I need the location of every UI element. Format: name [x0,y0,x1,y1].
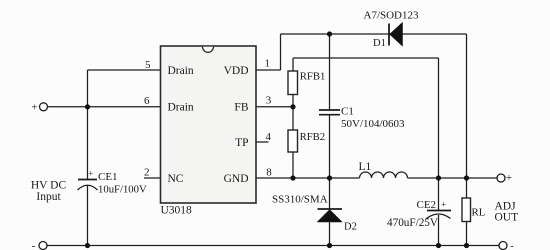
junction RL top node [464,175,469,180]
svg-text:+: + [441,201,446,211]
junction RL bottom node [464,243,469,248]
capacitor C1 [319,110,340,115]
wire junction to pin 6 [88,106,161,108]
svg-text:A7/SOD123: A7/SOD123 [364,10,420,22]
wire RFB1 to RFB2 [292,95,294,131]
junction switch node [327,175,332,180]
svg-text:+: + [88,169,93,179]
svg-text:Input: Input [36,191,61,203]
svg-text:4: 4 [266,131,272,143]
svg-text:RFB1: RFB1 [300,70,326,82]
svg-text:8: 8 [266,167,272,179]
wire RFB1 top riser [292,58,294,71]
wire RFB2 bottom [292,152,294,178]
svg-text:D2: D2 [344,222,357,233]
wire pin 5 [88,69,161,71]
svg-text:CE1: CE1 [98,171,118,183]
inductor L1 [360,172,408,178]
svg-text:+: + [506,172,512,184]
svg-text:-: - [32,240,36,250]
resistor RL [462,198,471,222]
wire sense drop [438,58,440,178]
wire CE2 to bottom rail [438,215,440,246]
wire pin 1 VDD [256,69,281,71]
svg-text:1: 1 [265,58,271,70]
capacitor CE1 [78,169,98,191]
svg-text:OUT: OUT [495,212,519,224]
svg-text:2: 2 [144,167,150,179]
junction top rail C1 node [327,31,332,36]
resistor RFB1 [288,71,298,95]
terminal output - [499,242,507,250]
wire riser to pin 5 row [87,70,89,107]
top rail wire [281,33,467,35]
svg-text:VDD: VDD [224,65,249,77]
svg-text:L1: L1 [359,161,372,173]
svg-text:HV DC: HV DC [31,180,67,192]
wire to CE2 [438,178,440,210]
wire junction down to CE1 [87,107,89,180]
terminal input + [40,103,48,111]
wire GND row [256,177,360,179]
wire pin 2 NC stub [144,177,161,179]
capacitor CE2 [427,201,452,219]
junction CE2 top node [436,175,441,180]
wire VDD riser [280,34,282,70]
wire D2 to bottom rail [329,222,331,246]
junction input+ node [85,104,90,109]
svg-text:RL: RL [472,207,486,219]
svg-text:D1: D1 [373,38,386,49]
svg-text:U3018: U3018 [161,205,193,217]
svg-text:SS310/SMA: SS310/SMA [272,194,328,206]
wire pin 4 TP stub [256,141,269,143]
wire C1 to GND row [329,115,331,178]
svg-text:GND: GND [224,173,249,185]
feedback sense rail wire [293,57,439,59]
wire top rail to C1 [329,34,331,110]
diode D1 [389,22,403,46]
wire RL to bottom rail [466,222,468,246]
bottom rail wire [47,245,499,247]
svg-text:5: 5 [145,59,151,71]
wire pin 3 FB [256,106,293,108]
svg-text:RFB2: RFB2 [300,131,326,143]
svg-text:50V/104/0603: 50V/104/0603 [341,118,405,130]
svg-text:470uF/25V: 470uF/25V [387,217,438,229]
junction bottom-left node [85,243,90,248]
svg-text:6: 6 [144,95,150,107]
resistor RFB2 [288,130,298,152]
svg-text:FB: FB [234,102,248,114]
svg-text:-: - [510,240,514,250]
svg-text:Drain: Drain [168,65,194,77]
IC U3018 body [161,46,257,203]
diode D2 [317,209,342,222]
wire CE1 to bottom rail [87,186,89,246]
svg-text:C1: C1 [341,106,354,118]
svg-text:10uF/100V: 10uF/100V [98,183,147,195]
wire right drop from D1 rail [466,34,468,178]
svg-text:Drain: Drain [168,102,194,114]
junction D2 bottom node [327,243,332,248]
junction CE2 bottom node [436,243,441,248]
terminal input - [39,242,47,250]
wire to RL [466,178,468,198]
terminal output + [497,174,505,182]
svg-text:TP: TP [235,137,248,149]
svg-text:NC: NC [168,173,184,185]
svg-text:+: + [31,102,37,114]
junction FB node [290,104,295,109]
wire input+ to junction [48,106,88,108]
wire node to D2 [329,178,331,209]
junction RFB2 GND node [290,175,295,180]
svg-text:3: 3 [266,95,272,107]
svg-text:CE2: CE2 [417,199,437,211]
wire L1 to output+ [408,177,498,179]
